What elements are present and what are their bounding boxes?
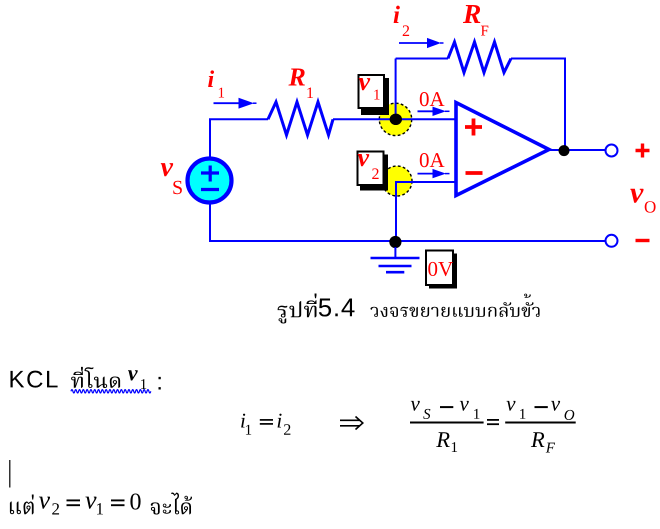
resistor RF <box>448 42 511 73</box>
node v2 highlight <box>382 166 412 196</box>
math v2 = v1 = 0 <box>39 497 50 509</box>
label 0V box shadow <box>429 254 457 289</box>
label v2 <box>358 154 370 166</box>
label i2 <box>394 6 400 23</box>
label v1 box <box>359 75 385 108</box>
arrow i1 <box>214 102 242 104</box>
arrow 0A bottom <box>418 173 435 175</box>
wire feedback top right <box>511 59 565 151</box>
source VS circle <box>188 159 232 203</box>
label 0A bottom <box>420 153 445 167</box>
node output junction dot <box>559 145 570 156</box>
text KCL <box>10 371 57 388</box>
resistor R1 <box>268 102 333 135</box>
arrow i2 <box>399 42 429 44</box>
label R1 <box>288 68 304 85</box>
wire op-amp output <box>549 149 606 151</box>
text colon <box>158 377 160 390</box>
label v1 box shadow <box>361 78 389 115</box>
label v2 box shadow <box>360 155 388 191</box>
terminal minus output <box>606 235 618 247</box>
label RF <box>463 5 480 23</box>
wire v2 corner to inverting input <box>396 182 456 241</box>
caption 5.4 <box>319 299 355 317</box>
label i1 <box>208 70 214 87</box>
wire bottom rail <box>210 204 606 241</box>
node ground junction dot <box>389 236 401 248</box>
label 0A top <box>420 92 445 106</box>
equation equals <box>487 420 499 424</box>
wire R1 to op-amp noninverting input <box>333 118 456 120</box>
caption title thai <box>370 294 539 317</box>
source minus <box>201 188 219 191</box>
ground <box>371 258 420 272</box>
wire feedback top left <box>396 58 448 60</box>
op-amp U1 <box>456 103 549 196</box>
label vO <box>630 189 643 203</box>
equation fraction 1 numerator <box>411 401 420 411</box>
equation fraction 2 denominator RF <box>531 432 544 447</box>
wire ground stub <box>394 247 396 257</box>
equation fraction 2 numerator <box>506 401 515 411</box>
node v1 highlight <box>379 103 411 135</box>
label minus terminal <box>636 239 650 242</box>
wire feedback left vertical <box>395 59 397 120</box>
equation fraction 1 bar <box>410 422 484 424</box>
equation fraction 2 bar <box>505 422 576 424</box>
op-amp plus input mark <box>465 119 482 136</box>
wire source top to R1 <box>210 119 268 157</box>
math v1 in text <box>128 370 138 380</box>
equation fraction 1 denominator R1 <box>436 432 449 447</box>
op-amp minus input mark <box>466 171 483 175</box>
terminal plus output <box>606 145 618 157</box>
node v1 junction dot <box>390 114 402 125</box>
label vS <box>161 163 173 176</box>
implies arrow <box>340 417 363 430</box>
text thai at node <box>71 367 120 388</box>
label 0V <box>428 262 453 276</box>
label v2 box <box>358 152 384 186</box>
text thai gets <box>151 492 192 514</box>
text cursor bar <box>9 460 11 488</box>
equation i1 = i2 <box>241 414 245 428</box>
label plus terminal <box>636 144 650 158</box>
arrow 0A top <box>418 110 435 112</box>
label 0V box <box>426 251 453 286</box>
spellcheck squiggle <box>71 390 151 393</box>
source plus <box>201 166 219 182</box>
caption figure number thai <box>278 293 317 323</box>
label v1 <box>359 78 371 90</box>
text thai but <box>10 495 34 515</box>
